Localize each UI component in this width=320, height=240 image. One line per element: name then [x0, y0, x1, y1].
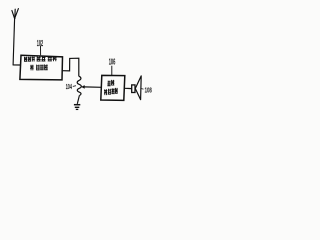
potentiometer R 104 (volume control, wavy element)	[77, 76, 81, 95]
block 106 label text line 2 (Korean, illegible)	[104, 89, 107, 95]
wire: block 102 output to potentiometer (staircase)	[62, 58, 79, 76]
block 102 (receiver-demodulator box)	[20, 55, 63, 80]
leader line for label 106	[111, 66, 113, 76]
speaker LS 108 (horn cone)	[135, 76, 141, 100]
speaker LS 108 (driver rectangle)	[132, 85, 135, 93]
leader dash for label 104	[73, 85, 76, 88]
wire: antenna down-lead	[13, 18, 15, 65]
antenna	[12, 9, 19, 19]
wire: antenna to block 102	[13, 64, 21, 66]
wire: block 106 to speaker	[125, 87, 132, 89]
svg-text:108: 108	[145, 85, 152, 94]
ground	[74, 105, 80, 110]
svg-text:104: 104	[66, 82, 72, 91]
block 102 label text line 1 (Korean, illegible)	[24, 57, 27, 62]
arrowhead of wiper	[81, 85, 85, 89]
block 106 (amplifier box)	[101, 75, 125, 100]
block 106 label text line 1 (Korean, illegible)	[107, 81, 110, 87]
block 102 label text line 2 (Korean, illegible)	[30, 65, 33, 71]
wire: potentiometer to ground	[77, 95, 79, 104]
leader dash for label 108	[141, 88, 143, 91]
svg-text:106: 106	[109, 58, 116, 67]
leader line for label 102	[40, 46, 42, 55]
wire: potentiometer wiper to block 106 (arrow)	[84, 86, 102, 88]
